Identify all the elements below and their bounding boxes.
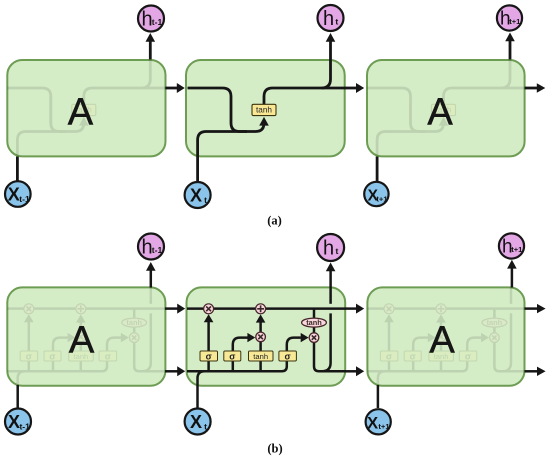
wire: B2-B3 h-line arrow [345,370,356,373]
faded internals box B3 [367,263,526,410]
cell box A2 [186,60,345,156]
wire: B2-B3 C-line arrow [345,307,356,310]
svg-text:X: X [8,412,20,432]
wire: x(t+1) stub row b [377,385,380,408]
svg-text:X: X [367,414,378,432]
svg-text:A: A [429,319,455,361]
node x(t) [185,182,211,208]
wire: h(t+1) riser row b [511,268,514,287]
svg-text:t: t [335,246,338,256]
node h(t) row b [317,234,344,261]
svg-text:t-1: t-1 [152,17,163,27]
wire: A2 to A3 arrow [345,87,357,90]
svg-text:h: h [323,8,334,30]
svg-text:t: t [335,16,338,26]
wire: B1-B2 C-line arrow [165,307,178,310]
internals box B2 [187,263,346,410]
svg-text:t-1: t-1 [152,245,163,255]
wire: h(t+1) riser [509,41,512,60]
svg-text:t+1: t+1 [509,17,521,26]
wire: x(t-1) stub row b [16,385,19,409]
svg-text:A: A [68,91,94,133]
node h(t-1) row b [138,234,164,260]
svg-text:t-1: t-1 [19,421,30,431]
node x(t+1) row b [366,409,391,434]
cell box A1 [7,60,165,156]
cell box B1 [7,287,165,385]
svg-text:X: X [190,412,202,432]
wire: B1-B2 h-line arrow [165,370,178,373]
wire: x(t-1) stub [16,157,19,182]
svg-text:t-1: t-1 [19,194,30,204]
svg-text:(b): (b) [267,442,282,456]
node h(t-1) [138,6,164,32]
node x(t-1) row b [5,409,31,435]
svg-text:X: X [190,185,202,205]
faded internals box B1 [7,263,166,410]
svg-text:A: A [69,319,95,361]
node h(t) [318,5,344,31]
svg-text:h: h [323,238,334,260]
faded internals box A3 [367,33,525,183]
node h(t+1) [497,5,522,30]
cell box A3 [367,60,525,156]
wire: B3 h-line output arrow [525,370,538,373]
svg-text:t+1: t+1 [511,245,523,254]
svg-text:t+1: t+1 [376,194,388,203]
cell box B3 [367,287,524,385]
svg-text:t: t [204,421,207,431]
cell box B2 [187,287,346,385]
svg-text:A: A [427,91,453,133]
wire: A1 to A2 arrow [17,33,545,183]
faded internals box A1 [7,33,165,183]
node x(t+1) [364,182,388,206]
svg-text:X: X [8,184,20,204]
node x(t) row b [185,409,211,435]
node h(t+1) row b [499,233,524,258]
wire: x(t+1) stub [376,157,379,183]
wire: h(t-1) riser row b [150,271,153,288]
wire: h(t-1) riser [149,42,152,60]
svg-text:t+1: t+1 [378,422,390,431]
node x(t-1) [5,181,31,207]
svg-text:t: t [204,195,207,205]
internals box A2 [188,33,346,183]
svg-text:(a): (a) [267,213,282,227]
wire: B3 C-line output arrow [525,307,538,310]
wire: A3 output arrow [525,87,537,90]
